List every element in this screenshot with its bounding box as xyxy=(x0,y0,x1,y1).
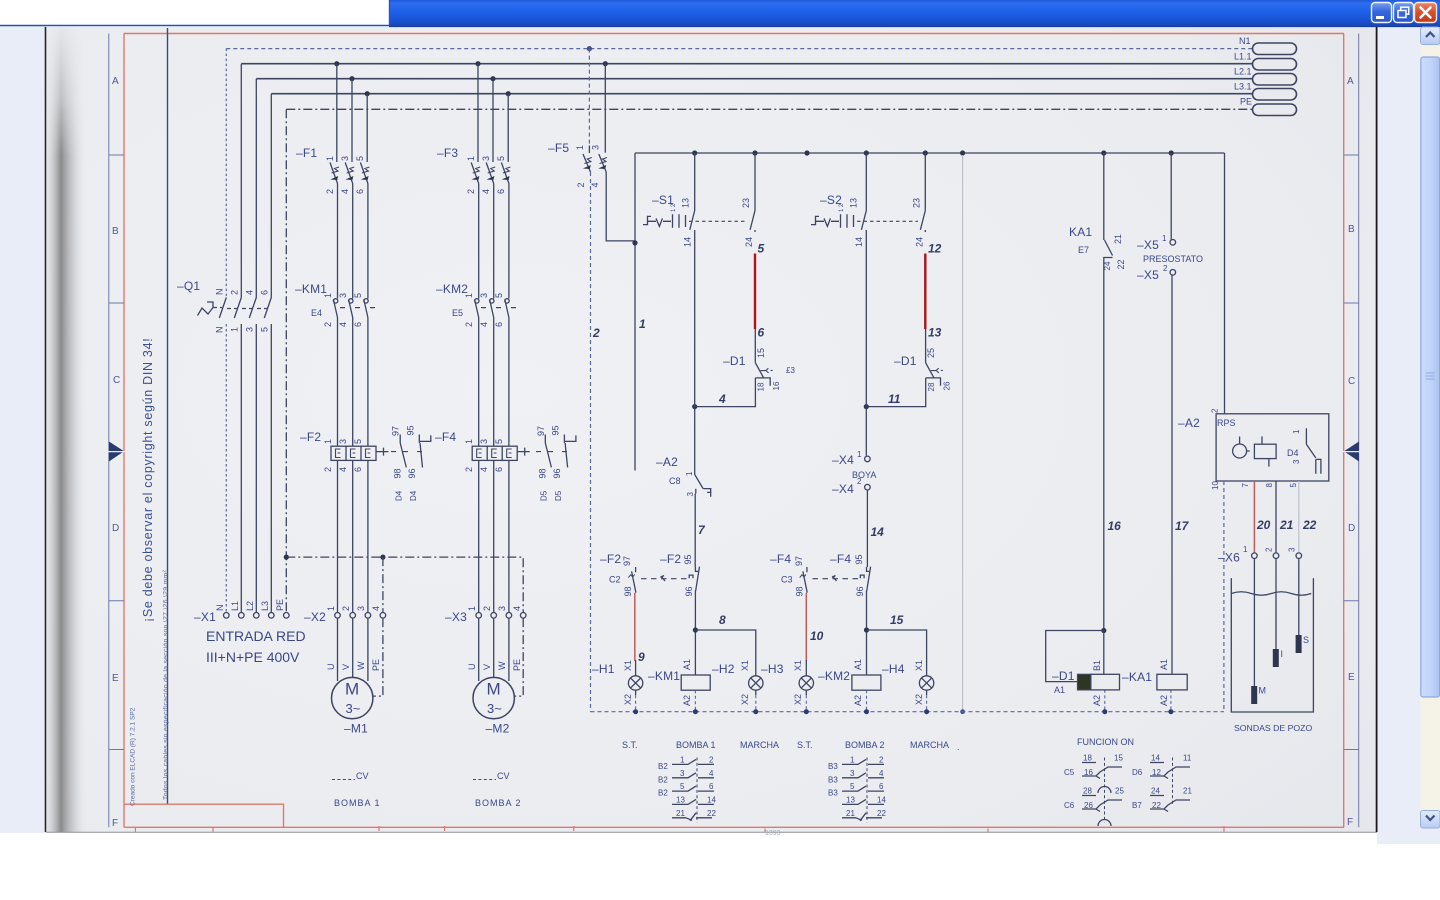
svg-text:F: F xyxy=(1347,817,1353,828)
svg-text:18: 18 xyxy=(757,382,766,391)
svg-text:26: 26 xyxy=(942,381,951,390)
svg-text:21: 21 xyxy=(1279,518,1294,532)
breaker F1 xyxy=(296,146,369,194)
svg-text:2: 2 xyxy=(592,326,600,340)
paper left scan shadow xyxy=(47,27,87,832)
svg-text:2: 2 xyxy=(879,756,884,765)
svg-text:RPS: RPS xyxy=(1217,418,1236,428)
svg-text:25: 25 xyxy=(1115,787,1124,796)
svg-text:3: 3 xyxy=(338,439,348,444)
wires F4 to X3 xyxy=(479,460,509,613)
wires X2 to M1 xyxy=(338,618,368,681)
wire PE to M2 xyxy=(514,618,523,696)
scrollbar up arrow xyxy=(1421,27,1440,45)
wire L1 Q1 to X1 xyxy=(240,324,242,613)
svg-text:9: 9 xyxy=(638,650,645,664)
svg-text:98: 98 xyxy=(538,468,548,478)
svg-text:–X4: –X4 xyxy=(832,482,854,496)
labels U V W PE M2 xyxy=(467,659,522,671)
svg-text:1: 1 xyxy=(464,439,474,444)
svg-text:S.T.: S.T. xyxy=(622,740,638,750)
svg-text:4: 4 xyxy=(340,189,350,194)
svg-text:W: W xyxy=(497,661,507,670)
svg-text:5: 5 xyxy=(353,439,363,444)
sleeve PE xyxy=(1253,104,1297,116)
svg-text:1: 1 xyxy=(325,156,335,161)
sleeve L1.1 xyxy=(1253,59,1297,71)
svg-text:E: E xyxy=(112,673,119,684)
svg-text:6: 6 xyxy=(494,322,504,327)
svg-text:KA1: KA1 xyxy=(1069,225,1092,239)
left margin outer line xyxy=(108,34,110,828)
terminal strip X3 xyxy=(445,606,526,624)
svg-text:14: 14 xyxy=(871,525,885,539)
svg-text:Creado con ELCAD (R) 7.2.1 SP2: Creado con ELCAD (R) 7.2.1 SP2 xyxy=(130,707,137,806)
svg-text:2: 2 xyxy=(464,467,474,472)
svg-text:C5: C5 xyxy=(1064,768,1075,777)
wire L3 Q1 to X1 xyxy=(270,324,272,613)
svg-text:6: 6 xyxy=(260,290,270,295)
svg-text:–A2: –A2 xyxy=(1178,416,1200,430)
svg-text:2: 2 xyxy=(1163,264,1168,273)
svg-text:22: 22 xyxy=(707,809,716,818)
svg-text:–KM2: –KM2 xyxy=(818,669,850,683)
svg-text:B7: B7 xyxy=(1132,801,1142,810)
svg-text:6: 6 xyxy=(355,189,365,194)
svg-text:98: 98 xyxy=(623,586,633,596)
svg-text:1: 1 xyxy=(680,756,685,765)
paper left edge xyxy=(45,27,47,832)
motor M2 xyxy=(473,677,514,735)
svg-text:4: 4 xyxy=(481,189,491,194)
node N1 junction at x589 xyxy=(587,46,592,51)
svg-text:4: 4 xyxy=(338,467,348,472)
svg-text:95: 95 xyxy=(683,554,693,564)
svg-text:1: 1 xyxy=(575,145,585,150)
svg-text:4: 4 xyxy=(718,392,726,406)
svg-text:B3: B3 xyxy=(828,762,838,771)
faint unused wire xyxy=(962,155,964,711)
node 11 junction xyxy=(864,404,869,409)
svg-text:2: 2 xyxy=(482,606,492,611)
svg-text:A: A xyxy=(112,76,119,87)
svg-text:£3: £3 xyxy=(786,366,795,375)
wire X4 to F4b xyxy=(866,490,868,567)
svg-text:B3: B3 xyxy=(828,789,838,798)
svg-text:MARCHA: MARCHA xyxy=(740,740,779,750)
svg-text:23: 23 xyxy=(912,198,922,208)
sleeve L2.1 xyxy=(1253,74,1297,86)
svg-text:5: 5 xyxy=(355,156,365,161)
svg-text:I: I xyxy=(1281,649,1284,659)
right band dividers xyxy=(1344,155,1359,750)
svg-text:13: 13 xyxy=(676,796,685,805)
svg-text:L2: L2 xyxy=(245,601,255,611)
svg-text:D5: D5 xyxy=(554,490,563,501)
svg-text:CV: CV xyxy=(356,771,369,781)
svg-text:14: 14 xyxy=(1151,754,1160,763)
overload F2 heater box xyxy=(300,430,376,472)
svg-text:4: 4 xyxy=(479,322,489,327)
electrode I xyxy=(1273,559,1283,668)
svg-text:4: 4 xyxy=(245,290,255,295)
node faint wire bottom xyxy=(960,709,965,714)
schematic left border line xyxy=(167,28,169,804)
svg-text:11: 11 xyxy=(1183,754,1192,763)
svg-text:24: 24 xyxy=(744,237,754,247)
svg-text:2: 2 xyxy=(1211,408,1220,413)
wire red 9 xyxy=(634,593,636,661)
svg-text:98: 98 xyxy=(795,586,805,596)
svg-text:D5: D5 xyxy=(540,490,549,501)
svg-text:–X5: –X5 xyxy=(1137,268,1159,282)
svg-text:8: 8 xyxy=(1265,483,1274,488)
svg-text:C2: C2 xyxy=(609,575,621,585)
wires F3 to KM2 xyxy=(479,184,509,299)
label CV 2 xyxy=(473,779,496,781)
svg-text:M: M xyxy=(345,680,359,699)
restore button xyxy=(1394,3,1414,23)
svg-text:22: 22 xyxy=(1302,518,1317,532)
svg-text:C: C xyxy=(113,375,120,386)
svg-text:3: 3 xyxy=(1292,459,1301,464)
app background left strip xyxy=(0,26,46,833)
relay contact A2 C8 xyxy=(656,455,711,497)
neutral dashed bottom rail xyxy=(591,711,1224,713)
svg-text:3~: 3~ xyxy=(487,701,502,716)
wire L3 drop to Q1 xyxy=(270,94,272,298)
svg-text:PRESOSTATO: PRESOSTATO xyxy=(1143,254,1203,264)
svg-text:3: 3 xyxy=(245,327,255,332)
svg-text:5: 5 xyxy=(494,293,504,298)
right fold triangle xyxy=(1344,442,1359,462)
contact table D6 B7 xyxy=(1132,754,1192,812)
paper right edge xyxy=(1376,27,1378,832)
aux contact F4 97-98 (C3) xyxy=(770,552,862,597)
svg-text:1: 1 xyxy=(323,439,333,444)
left band dividers xyxy=(109,155,124,750)
app background right strip xyxy=(1377,26,1440,844)
svg-text:98: 98 xyxy=(393,468,403,478)
wire KA1 contact down xyxy=(1103,262,1105,631)
svg-text:MARCHA: MARCHA xyxy=(910,740,949,750)
svg-text:2: 2 xyxy=(466,189,476,194)
left fold triangle xyxy=(109,442,124,462)
sleeve L3.1 xyxy=(1253,89,1297,101)
svg-text:28: 28 xyxy=(1083,787,1092,796)
svg-text:SONDAS DE POZO: SONDAS DE POZO xyxy=(1234,723,1312,733)
svg-text:1: 1 xyxy=(464,293,474,298)
svg-text:A2: A2 xyxy=(1159,695,1169,706)
svg-text:1: 1 xyxy=(639,317,646,331)
svg-text:2: 2 xyxy=(323,467,333,472)
svg-text:4: 4 xyxy=(879,769,884,778)
svg-text:6: 6 xyxy=(496,189,506,194)
wire RPS pin10 dashed to rail xyxy=(1223,481,1225,712)
svg-text:1: 1 xyxy=(685,471,694,476)
svg-text:6: 6 xyxy=(353,322,363,327)
svg-text:6: 6 xyxy=(879,782,884,791)
svg-text:A2: A2 xyxy=(853,695,863,706)
svg-text:CV: CV xyxy=(497,771,510,781)
wire N1 to F5 dashed xyxy=(588,49,590,146)
breaker F5 xyxy=(548,141,607,188)
svg-text:–H1: –H1 xyxy=(592,662,615,676)
paper bottom edge xyxy=(46,831,1377,833)
svg-text:FUNCION ON: FUNCION ON xyxy=(1077,737,1134,747)
svg-text:5: 5 xyxy=(758,242,765,256)
wire N drop to Q1 xyxy=(225,49,227,297)
svg-text:13: 13 xyxy=(681,198,691,208)
lamp H4 xyxy=(882,660,934,705)
svg-text:A1: A1 xyxy=(1054,685,1065,695)
terminal X4 boya xyxy=(832,450,876,496)
control rail xyxy=(635,152,1225,154)
svg-text:–F4: –F4 xyxy=(435,430,456,444)
svg-text:4: 4 xyxy=(590,182,600,187)
svg-text:X1: X1 xyxy=(740,660,750,671)
svg-text:D6: D6 xyxy=(1132,768,1143,777)
svg-text:B: B xyxy=(112,226,119,237)
svg-text:–F1: –F1 xyxy=(296,146,317,160)
table headers row xyxy=(622,737,1134,752)
svg-text:3: 3 xyxy=(479,293,489,298)
svg-text:13: 13 xyxy=(928,326,942,340)
svg-text:16: 16 xyxy=(772,381,781,390)
svg-text:–M1: –M1 xyxy=(344,722,368,736)
wire RPS pin5 to X6 xyxy=(1298,481,1300,553)
svg-text:17: 17 xyxy=(1175,519,1190,533)
svg-text:2: 2 xyxy=(341,606,351,611)
svg-text:PE: PE xyxy=(275,599,285,611)
wire S1 down through node4 xyxy=(694,232,696,471)
node rail dots xyxy=(633,709,1173,714)
svg-text:BOMBA 1: BOMBA 1 xyxy=(334,798,381,808)
svg-text:–X4: –X4 xyxy=(832,453,854,467)
timer contact D1 15-18 xyxy=(723,329,795,392)
svg-text:–D1: –D1 xyxy=(723,354,746,368)
svg-text:1: 1 xyxy=(323,293,333,298)
wires buses to F1 xyxy=(337,64,367,162)
node rail junctions xyxy=(692,150,697,155)
svg-text:BOMBA 2: BOMBA 2 xyxy=(845,740,885,750)
svg-text:W: W xyxy=(356,661,366,670)
svg-text:BOMBA 1: BOMBA 1 xyxy=(676,740,716,750)
svg-text:6: 6 xyxy=(758,326,765,340)
contactor KM1 contacts xyxy=(295,282,379,327)
terminal strip X2 xyxy=(304,606,386,624)
svg-text:3: 3 xyxy=(356,606,366,611)
wires X3 to M2 xyxy=(479,618,509,681)
wire neutral dashed F5 down xyxy=(590,172,592,712)
motor M1 xyxy=(332,677,373,735)
svg-text:B2: B2 xyxy=(658,789,668,798)
scrollbar down arrow xyxy=(1421,811,1440,829)
svg-text:1: 1 xyxy=(850,756,855,765)
svg-text:L1: L1 xyxy=(230,601,240,611)
svg-text:A2: A2 xyxy=(682,695,692,706)
svg-text:96: 96 xyxy=(855,586,865,596)
contact table B2 xyxy=(658,756,716,823)
svg-text:1393: 1393 xyxy=(765,830,781,837)
svg-text:3~: 3~ xyxy=(346,701,361,716)
svg-text:X2: X2 xyxy=(793,694,803,705)
svg-text:95: 95 xyxy=(406,425,416,435)
terminal strip X1 xyxy=(194,599,289,624)
svg-text:5: 5 xyxy=(353,293,363,298)
drawing frame red left line xyxy=(123,34,125,828)
svg-text:14: 14 xyxy=(707,796,716,805)
svg-text:–D1: –D1 xyxy=(1052,669,1075,683)
neutral stubs to rail xyxy=(636,690,1171,712)
coil KA1 xyxy=(1122,659,1187,706)
svg-text:PE: PE xyxy=(512,659,522,671)
svg-text:5: 5 xyxy=(680,782,685,791)
svg-text:5: 5 xyxy=(496,156,506,161)
node D1 branch junction xyxy=(1101,628,1106,633)
contact table C5 C6 xyxy=(1064,754,1124,827)
terminal X5 presostato xyxy=(1137,234,1203,282)
svg-text:97: 97 xyxy=(536,426,546,436)
close button xyxy=(1415,3,1437,23)
margin letters left xyxy=(112,76,120,829)
svg-text:¡Se debe observar el copyright: ¡Se debe observar el copyright según DIN… xyxy=(141,338,155,622)
bus L2.1 xyxy=(256,78,1252,80)
svg-text:X1: X1 xyxy=(623,660,633,671)
svg-text:10: 10 xyxy=(1211,481,1220,490)
svg-text:–H4: –H4 xyxy=(882,662,905,676)
svg-text:97: 97 xyxy=(622,556,632,566)
wires buses to F3 xyxy=(478,64,508,162)
svg-text:4: 4 xyxy=(512,606,522,611)
svg-text:D4: D4 xyxy=(1287,448,1299,458)
PE distribution dash-dot rail xyxy=(286,557,523,613)
lamp H2 xyxy=(712,660,763,705)
svg-text:96: 96 xyxy=(684,586,694,596)
svg-text:C8: C8 xyxy=(669,476,681,486)
svg-text:III+N+PE 400V: III+N+PE 400V xyxy=(206,649,300,665)
bus L1.1 xyxy=(241,63,1252,65)
svg-text:10: 10 xyxy=(810,629,824,643)
bus N1 dashed xyxy=(226,48,1252,50)
svg-text:14: 14 xyxy=(854,237,864,247)
wire X5-2 to KA1 coil xyxy=(1171,275,1173,674)
wires KM1 to F2 xyxy=(338,318,368,447)
svg-text:S.T.: S.T. xyxy=(797,740,813,750)
svg-text:1: 1 xyxy=(467,606,477,611)
svg-text:A2: A2 xyxy=(1092,695,1102,706)
menu white box xyxy=(0,0,389,25)
svg-text:3: 3 xyxy=(1288,547,1297,552)
svg-text:16: 16 xyxy=(1108,519,1122,533)
drawing frame red top line xyxy=(124,33,1344,35)
wire D1 to node 11 xyxy=(866,378,925,407)
wire PE to M1 xyxy=(373,618,383,696)
switch S1 xyxy=(643,153,755,247)
svg-text:D4: D4 xyxy=(409,490,418,501)
svg-text:B3: B3 xyxy=(828,775,838,784)
switch Q1 xyxy=(177,279,271,333)
svg-text:4: 4 xyxy=(371,606,381,611)
svg-text:7: 7 xyxy=(1241,483,1250,488)
svg-text:–X6: –X6 xyxy=(1218,551,1240,565)
wire rail to X5-1 xyxy=(1170,153,1172,240)
svg-text:B2: B2 xyxy=(658,762,668,771)
wire F5 to control rail xyxy=(606,153,635,471)
svg-text:1: 1 xyxy=(1292,429,1301,434)
svg-text:–X1: –X1 xyxy=(194,610,216,624)
contactor KM2 contacts xyxy=(436,282,520,327)
wire red 5-6 xyxy=(754,254,756,330)
svg-text:E: E xyxy=(1348,672,1355,683)
svg-text:U: U xyxy=(326,664,336,671)
svg-text:–F2: –F2 xyxy=(600,552,621,566)
node F5 junction xyxy=(632,240,637,245)
svg-text:B: B xyxy=(1348,224,1355,235)
svg-text:C: C xyxy=(1348,376,1355,387)
wire red 12-13 xyxy=(924,254,926,330)
svg-text:D: D xyxy=(112,523,119,534)
svg-text:2: 2 xyxy=(576,182,586,187)
svg-text:Todos los cables sin especific: Todos los cables sin especificación de l… xyxy=(163,570,170,800)
svg-text:3: 3 xyxy=(680,769,685,778)
lamp H3 xyxy=(761,660,814,705)
svg-text:D: D xyxy=(1348,523,1355,534)
svg-text:2: 2 xyxy=(709,756,714,765)
wire D1 to node 4 xyxy=(695,378,756,407)
svg-text:28: 28 xyxy=(927,382,936,391)
svg-text:M: M xyxy=(487,680,501,699)
svg-text:–Q1: –Q1 xyxy=(177,279,200,293)
drawing frame red right line xyxy=(1343,34,1345,828)
svg-text:95: 95 xyxy=(551,425,561,435)
svg-text:3: 3 xyxy=(497,606,507,611)
breaker F3 xyxy=(437,146,510,194)
svg-text:E7: E7 xyxy=(1078,245,1089,255)
svg-text:95: 95 xyxy=(854,554,864,564)
svg-text:8: 8 xyxy=(719,613,726,627)
scrollbar thumb xyxy=(1421,57,1440,697)
svg-text:21: 21 xyxy=(846,809,855,818)
coil KM2 xyxy=(818,659,881,706)
svg-text:–X5: –X5 xyxy=(1137,238,1159,252)
svg-text:4: 4 xyxy=(709,769,714,778)
svg-text:N: N xyxy=(215,327,225,334)
svg-text:–F2: –F2 xyxy=(660,552,681,566)
svg-text:15: 15 xyxy=(890,613,904,627)
svg-text:25: 25 xyxy=(926,348,936,358)
svg-text:3: 3 xyxy=(850,769,855,778)
svg-text:L3.1: L3.1 xyxy=(1234,82,1252,92)
svg-text:X2: X2 xyxy=(914,694,924,705)
svg-text:X1: X1 xyxy=(793,660,803,671)
lamp H1 xyxy=(592,660,643,705)
svg-text:M: M xyxy=(1259,686,1267,696)
coil KM1 xyxy=(648,659,710,706)
svg-text:A1: A1 xyxy=(853,659,863,670)
svg-text:3: 3 xyxy=(338,293,348,298)
svg-text:13: 13 xyxy=(846,796,855,805)
svg-text:2: 2 xyxy=(857,477,862,486)
svg-text:F: F xyxy=(112,818,118,829)
svg-text:3: 3 xyxy=(591,145,601,150)
wire rail to RPS xyxy=(1224,153,1226,414)
wire red 10 xyxy=(805,593,807,661)
svg-text:X2: X2 xyxy=(623,694,633,705)
svg-text:1: 1 xyxy=(1243,545,1248,554)
sleeve N1 xyxy=(1253,43,1297,55)
svg-text:.: . xyxy=(957,742,960,752)
